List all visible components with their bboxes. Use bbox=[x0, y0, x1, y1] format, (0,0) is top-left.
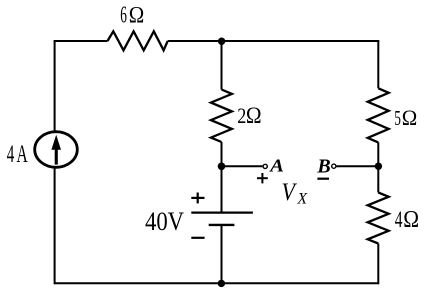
label 2Ω bbox=[237, 102, 261, 128]
wire: middle branch (2Ω to node) bbox=[221, 142, 223, 167]
svg-text:Ω: Ω bbox=[402, 105, 418, 130]
wire: battery bottom plate to bottom node bbox=[221, 225, 223, 283]
battery V1 short plate (−) bbox=[209, 224, 235, 226]
svg-text:5: 5 bbox=[394, 106, 401, 130]
wire: right branch (5Ω to right node) bbox=[377, 142, 379, 167]
wire: left branch upper (top-left corner to current source) bbox=[54, 41, 56, 131]
svg-text:B: B bbox=[316, 156, 330, 178]
junction dot: bottom node bbox=[218, 280, 225, 287]
label 4A bbox=[7, 139, 28, 168]
wire: right branch (right node to 4Ω) bbox=[377, 166, 379, 193]
wire: stub to terminal A bbox=[222, 165, 263, 167]
terminal B open circle bbox=[332, 164, 336, 168]
minus sign at terminal B bbox=[317, 178, 329, 180]
label 5Ω bbox=[394, 105, 417, 130]
svg-text:Ω: Ω bbox=[403, 206, 419, 232]
wire: top right segment bbox=[168, 40, 380, 42]
resistor R1 6Ω zigzag bbox=[108, 31, 168, 50]
svg-text:Ω: Ω bbox=[129, 1, 144, 27]
junction dot: right node bbox=[375, 163, 382, 170]
terminal A open circle bbox=[263, 164, 267, 168]
label 6Ω bbox=[120, 1, 144, 28]
plus sign at terminal A bbox=[257, 173, 268, 183]
svg-text:6: 6 bbox=[120, 1, 127, 28]
svg-text:4: 4 bbox=[395, 209, 403, 234]
wire: left branch lower (current source to bottom-left corner) bbox=[54, 168, 56, 284]
label 4Ω bbox=[395, 206, 419, 233]
svg-text:A: A bbox=[269, 156, 284, 175]
svg-text:Ω: Ω bbox=[246, 102, 262, 128]
wire: middle node to battery top plate bbox=[221, 166, 223, 212]
svg-text:40V: 40V bbox=[145, 207, 184, 236]
battery minus sign bbox=[191, 237, 204, 239]
junction dot: top node bbox=[218, 38, 225, 45]
junction dot: middle node bbox=[218, 163, 226, 171]
wire: right branch upper (top-right corner to 5Ω) bbox=[377, 41, 379, 88]
svg-text:X: X bbox=[296, 191, 308, 208]
wire: top left segment bbox=[54, 40, 108, 42]
svg-text:4: 4 bbox=[7, 139, 15, 168]
resistor R4 4Ω zigzag bbox=[368, 193, 389, 244]
svg-text:A: A bbox=[17, 139, 28, 168]
current source I1 circle bbox=[35, 132, 78, 168]
resistor R3 5Ω zigzag bbox=[368, 88, 389, 142]
battery plus sign bbox=[191, 193, 204, 204]
wire: terminal B to right node bbox=[337, 165, 379, 167]
wire: right branch lower (4Ω to bottom-right corner) bbox=[377, 244, 379, 285]
wire: middle branch upper (top node to 2Ω) bbox=[221, 41, 223, 90]
wire: bottom bbox=[55, 282, 379, 284]
battery V1 long plate (+) bbox=[191, 212, 253, 214]
resistor R2 2Ω zigzag bbox=[211, 90, 232, 143]
current source arrow bbox=[51, 135, 61, 165]
